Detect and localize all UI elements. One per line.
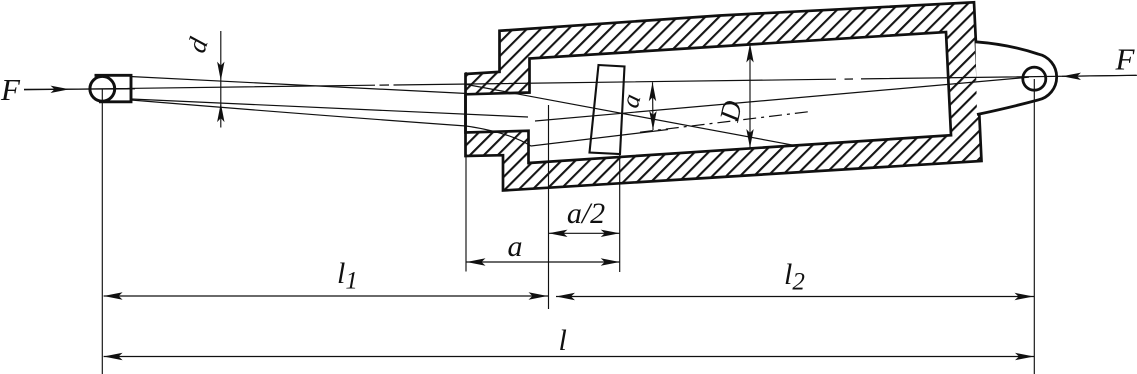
- force line right: [1062, 75, 1137, 76]
- force arrow F right: [1062, 73, 1081, 80]
- left eyelet ring: [90, 76, 115, 101]
- svg-text:l: l: [559, 324, 567, 357]
- dimension D line: [749, 44, 751, 149]
- dimension d line: [220, 31, 222, 128]
- extension line mid (l1/l2 split): [548, 105, 550, 309]
- taper line to right eye: [535, 77, 1029, 121]
- dimension l line: [104, 356, 1035, 358]
- dimension l1 line: [104, 295, 549, 297]
- svg-text:a: a: [508, 230, 523, 263]
- extension line at neck face: [465, 72, 467, 272]
- left eyelet block: [95, 75, 132, 102]
- force line left (solid over axis): [24, 88, 135, 91]
- dimension a (inside) line: [652, 82, 655, 130]
- eye hole: [1023, 67, 1046, 90]
- extension line at plate right: [619, 154, 621, 272]
- rod upper edge: [130, 77, 467, 94]
- inclined line B (neck mouth to lower wall): [466, 84, 794, 145]
- tube body (hatched wall cross-section): [466, 2, 982, 190]
- extension line from left eye center: [101, 89, 103, 374]
- right clevis eye lug: [976, 42, 1057, 115]
- dimension a/2 line: [549, 232, 620, 234]
- anchor plate (tilted washer): [590, 65, 625, 154]
- dimension a (bottom) line: [467, 261, 620, 263]
- svg-text:F: F: [1115, 42, 1136, 77]
- force arrow F left: [51, 86, 70, 93]
- svg-text:a/2: a/2: [567, 197, 605, 230]
- svg-text:F: F: [0, 72, 21, 107]
- rod lower flare curve to cone edge: [131, 100, 668, 146]
- rod lower edge: [131, 99, 528, 117]
- centerline (dash-dot axis): [24, 75, 1136, 90]
- dimension l2 line: [556, 296, 1034, 298]
- extension line from right eye center: [1033, 79, 1035, 374]
- inclined dash-dot rod axis: [640, 111, 812, 132]
